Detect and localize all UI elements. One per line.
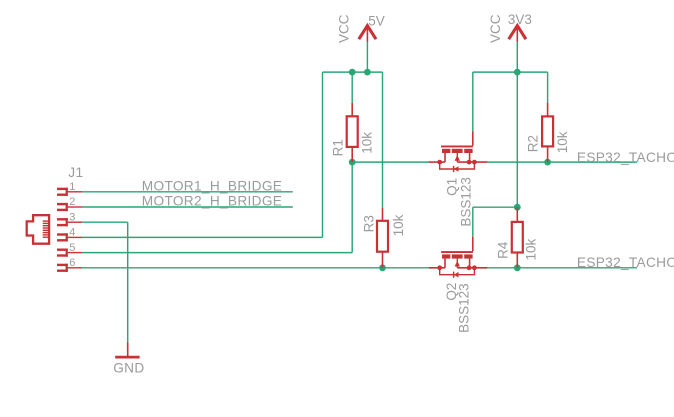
wire R1 bottom riser to pin5 (351, 162, 353, 253)
value 10k (R3) (391, 214, 406, 236)
wire VCC 5V stem (366, 42, 368, 72)
svg-text:10k: 10k (555, 131, 570, 153)
value 10k (R2) (555, 131, 570, 153)
label VCC (3V3 supply) (488, 14, 503, 43)
wire pin6 / ESP32_TACHO lower left segment (82, 267, 429, 269)
connector J1 contact teeth (43, 220, 48, 238)
wire pin5 net (82, 252, 352, 254)
wire mid 3V3 branch (473, 206, 518, 208)
wire Q2 gate drop (472, 207, 474, 237)
svg-text:5: 5 (69, 242, 75, 254)
label R4 (496, 241, 511, 259)
connector J1 body (27, 215, 49, 244)
pin 4 (57, 233, 82, 241)
svg-text:VCC: VCC (488, 14, 503, 43)
svg-text:R1: R1 (330, 139, 345, 156)
svg-text:MOTOR1_H_BRIDGE: MOTOR1_H_BRIDGE (142, 178, 282, 193)
label R2 (526, 135, 541, 152)
junction dot 5V rail at R1 (349, 69, 356, 76)
label Q2 (444, 283, 459, 301)
svg-text:ESP32_TACHO: ESP32_TACHO (577, 255, 674, 270)
wire ESP32_TACHO lower right segment (487, 267, 637, 269)
svg-text:10k: 10k (523, 238, 538, 260)
svg-text:10k: 10k (391, 214, 406, 236)
junction dot R1 bottom (349, 159, 356, 166)
svg-text:10k: 10k (359, 132, 374, 154)
svg-text:VCC: VCC (337, 14, 352, 43)
junction dot R2 bottom (544, 159, 551, 166)
resistor R1 (347, 103, 358, 162)
svg-text:GND: GND (113, 360, 144, 375)
svg-text:5V: 5V (368, 14, 385, 29)
transistor Q2 BSS123 (429, 237, 488, 278)
junction dot R4 bottom (514, 264, 521, 271)
svg-text:1: 1 (69, 181, 75, 193)
value 10k (R4) (523, 238, 538, 260)
label Q1 (444, 178, 459, 196)
label VCC (5V supply) (337, 14, 352, 43)
svg-text:3V3: 3V3 (508, 12, 532, 27)
pin 3 (57, 218, 82, 226)
transistor Q1 BSS123 (429, 132, 488, 173)
label R1 (330, 139, 345, 156)
supply symbol VCC 5V arrow (359, 26, 376, 42)
svg-text:3: 3 (69, 211, 75, 223)
svg-text:Q1: Q1 (444, 178, 459, 196)
svg-text:BSS123: BSS123 (457, 283, 472, 333)
svg-text:2: 2 (69, 196, 75, 208)
wire pin4 riser to 5V rail (322, 72, 324, 237)
svg-text:BSS123: BSS123 (458, 177, 473, 227)
pin 1 (57, 188, 82, 196)
svg-text:R4: R4 (496, 241, 511, 259)
wire GND drop (127, 222, 129, 342)
svg-text:MOTOR2_H_BRIDGE: MOTOR2_H_BRIDGE (142, 194, 282, 209)
value BSS123 (Q2) (457, 283, 472, 333)
wire 3V3 rail (473, 71, 548, 73)
pin 6 (57, 264, 82, 272)
wire R3 top drop from 5V rail (382, 72, 384, 208)
wire 3V3 riser to R4 (516, 72, 518, 207)
wire 5V rail (323, 71, 383, 73)
resistor R4 (512, 207, 523, 268)
ground symbol (115, 343, 139, 358)
wire R1 top stem (351, 72, 353, 103)
svg-text:6: 6 (69, 257, 75, 269)
svg-text:ESP32_TACHO: ESP32_TACHO (577, 150, 674, 165)
value 10k (R1) (359, 132, 374, 154)
wire R2 top stem (547, 72, 549, 103)
svg-text:R2: R2 (526, 135, 541, 152)
wire Q1 gate drop (472, 72, 474, 131)
svg-text:J1: J1 (68, 165, 83, 180)
wire ESP32_TACHO upper left segment (352, 161, 429, 163)
supply symbol VCC 3V3 arrow (509, 26, 526, 42)
junction dot 3V3 rail (514, 69, 521, 76)
wire pin4 net (82, 236, 323, 238)
svg-text:4: 4 (69, 227, 75, 239)
wire VCC 3V3 stem (516, 42, 518, 72)
wire ESP32_TACHO upper right segment (487, 161, 637, 163)
label R3 (362, 215, 377, 232)
wire pin2 net MOTOR2_H_BRIDGE (82, 206, 293, 208)
resistor R2 (542, 103, 553, 163)
pin 5 (57, 249, 82, 257)
junction dot R3 bottom (379, 264, 386, 271)
wire pin1 net MOTOR1_H_BRIDGE (82, 191, 293, 193)
svg-text:R3: R3 (362, 215, 377, 232)
wire pin3 net (82, 221, 128, 223)
value BSS123 (Q1) (458, 177, 473, 227)
pin 2 (57, 203, 82, 211)
resistor R3 (377, 208, 388, 268)
junction dot 5V rail at VCC arrow (364, 69, 371, 76)
junction dot mid 3V3 branch at R4 (514, 204, 521, 211)
